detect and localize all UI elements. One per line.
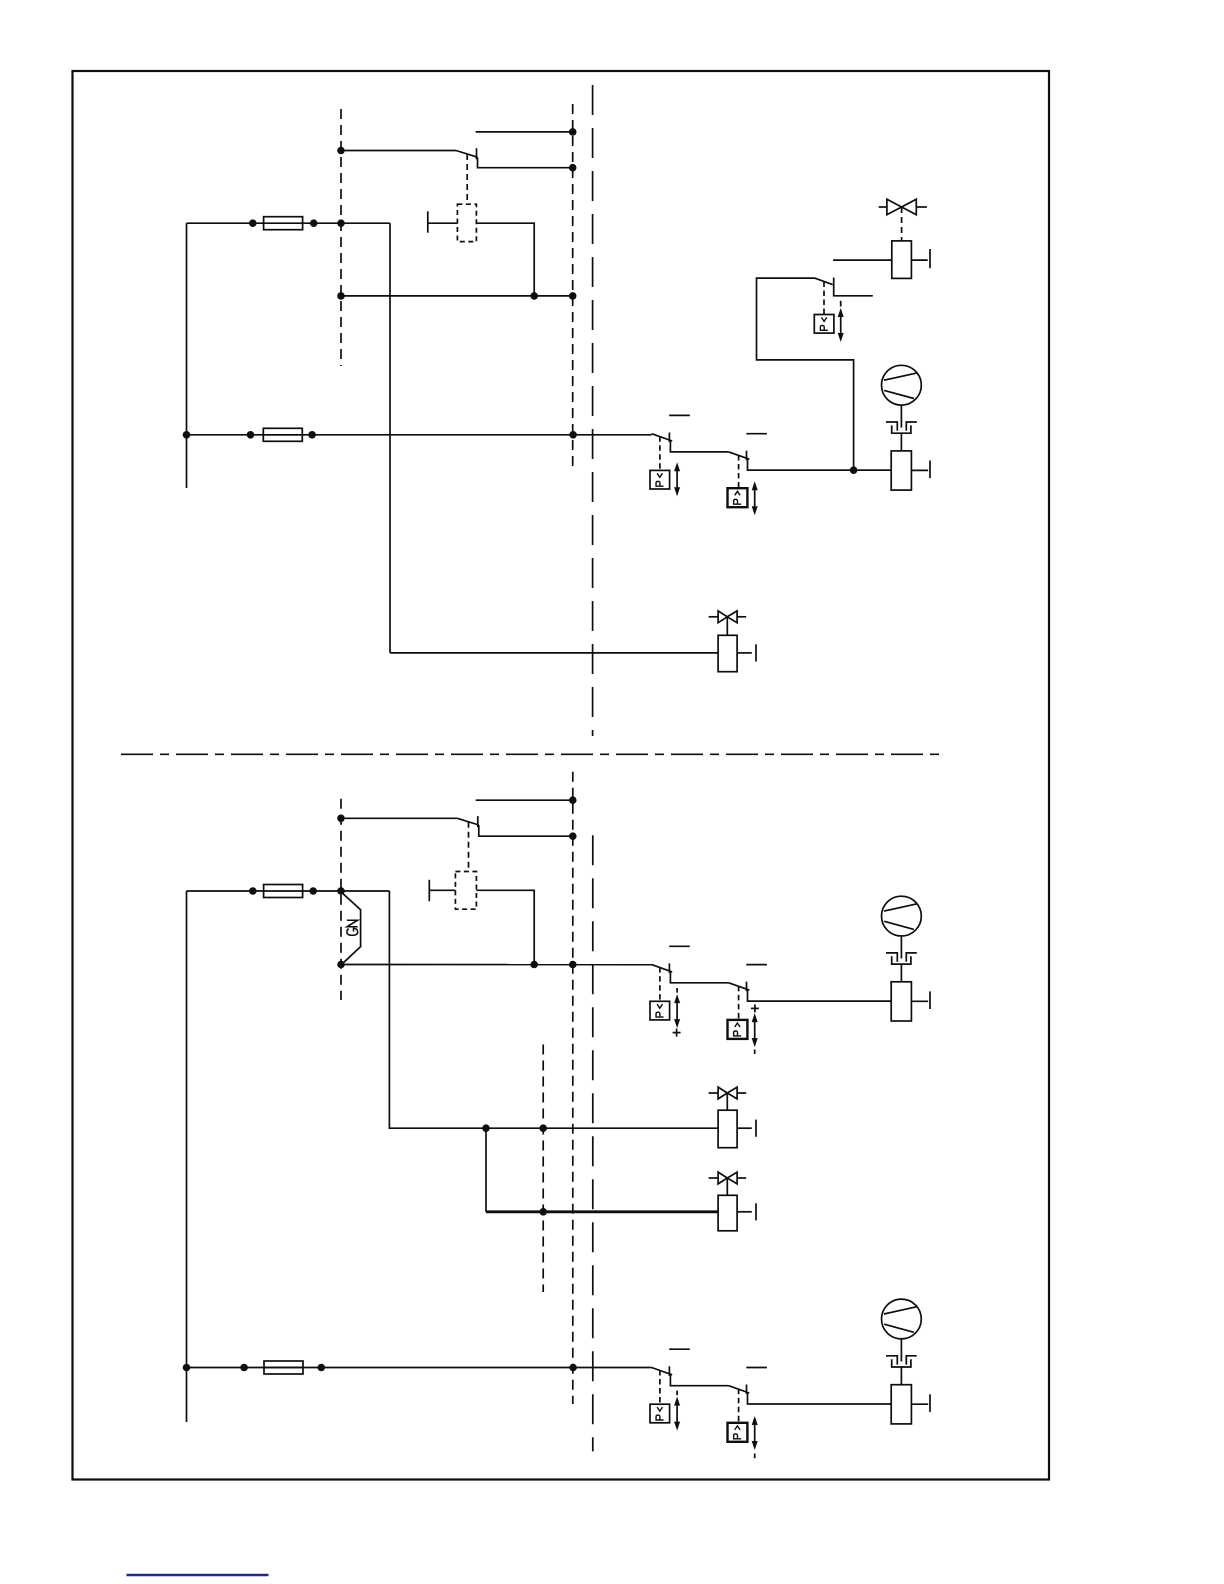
fuse F2 [263, 428, 302, 441]
solenoid valve Y5 [709, 1172, 756, 1231]
wire motor M1 feed [748, 469, 892, 471]
wire left droppipe 2 [186, 891, 188, 1422]
wire branch to valve Y5 [485, 1128, 487, 1212]
fuse F1 [264, 217, 303, 230]
wire node row [341, 295, 573, 297]
wire second phase row [187, 434, 652, 436]
coil K2 (dashed box) [455, 872, 476, 910]
wire GN jog [341, 892, 361, 965]
wire riser to valves Y4/Y5 [389, 891, 718, 1128]
wire left droppipe [186, 223, 188, 488]
wire K1 NC branch [476, 131, 573, 133]
coil K2 left terminal [429, 880, 455, 901]
bus line L1 (dashed) [340, 109, 342, 366]
actuating link K1 (dashed) [466, 154, 468, 204]
actuating link K2 (dashed) [468, 822, 470, 872]
relay contact K1 blade [456, 151, 478, 158]
pressure switch B2 box P> [728, 488, 748, 507]
fuse F3 [264, 885, 303, 898]
bus line L2' (dashed) [572, 772, 574, 1404]
pressure switch B2 link (dashed) [738, 455, 740, 488]
pressure switch B1 blade [652, 415, 729, 452]
wire phase feed 2 [187, 890, 264, 892]
pressure switch B1 box P< [650, 470, 670, 489]
hyperlink underline (blue) [127, 1574, 269, 1576]
pressure switch B4 link (dashed) [659, 967, 661, 1001]
relay contact K2 blade [457, 818, 479, 825]
motor fan M2 [882, 896, 931, 1021]
boundary line (long dash) [592, 85, 594, 736]
pressure switch B4 blade [652, 946, 729, 983]
motor fan M1 [882, 365, 931, 490]
pressure switch B7 box P> [728, 1423, 748, 1442]
relay contact K1 contact tick [476, 148, 478, 159]
boundary line (long dash) [592, 835, 594, 1451]
arrow B1 [674, 462, 680, 496]
bus line L1' (dashed) [340, 799, 342, 1000]
pressure switch B2 blade [729, 434, 891, 471]
pressure switch B5 box P> [728, 1020, 748, 1039]
wire fuse F1 to corner [303, 222, 390, 224]
pressure switch B6 link (dashed) [659, 1370, 661, 1404]
bus line L2 (dashed) [572, 104, 574, 472]
wire valve Y5 row (bold) [486, 1210, 718, 1213]
wire coil K1 to bus [476, 223, 534, 296]
wire node row 2 [341, 964, 652, 966]
wire K1 output [478, 157, 573, 168]
pressure switch B6 blade [652, 1349, 729, 1386]
wire K2 output [479, 825, 573, 836]
junction dots section 1 [183, 128, 858, 474]
pressure switch B6 box P< [650, 1404, 670, 1423]
arrow B7 with dash [752, 1416, 758, 1458]
pressure switch B3 blade [815, 278, 873, 296]
relay contact K2 contact tick [477, 816, 479, 827]
pressure switch B1 link (dashed) [659, 436, 661, 470]
arrow B5 with plus and dash [751, 1004, 759, 1054]
label GN [347, 920, 358, 935]
wire bottom phase row [187, 1367, 652, 1369]
wire fuse F3 to corner [303, 890, 390, 892]
arrow B3 with dash [838, 301, 844, 342]
wire riser to valve Y3 [389, 223, 391, 653]
arrow B6 with dash [674, 1391, 680, 1431]
fuse F4 [264, 1361, 303, 1374]
wire K1 pivot feed [341, 150, 456, 152]
section separator (dash-dot) [121, 753, 945, 755]
coil K1 left terminal [428, 211, 458, 232]
pressure switch B7 link (dashed) [738, 1389, 740, 1423]
solenoid valve Y1 (hand symbol, dashed stem) [833, 199, 930, 278]
pressure switch B3 box P< [814, 315, 834, 334]
wire K2 NC branch [476, 799, 573, 801]
wire bypass elbow [757, 278, 854, 470]
junction dots section 2 [183, 796, 577, 1371]
wire K2 pivot feed [341, 817, 457, 819]
pressure switch B5 link (dashed) [738, 986, 740, 1020]
bus line L3' (dashed) [542, 1045, 544, 1293]
coil K1 (dashed box) [457, 204, 476, 241]
border frame [73, 71, 1050, 1480]
arrow B4 with dash and plus [673, 988, 681, 1037]
arrow B2 [752, 481, 758, 515]
solenoid valve Y3 [390, 611, 756, 672]
pressure switch B4 box P< [650, 1001, 670, 1020]
wire phase feed [187, 222, 264, 224]
pressure switch B5 blade [729, 965, 892, 1002]
wire coil K2 to bus [476, 890, 534, 964]
motor fan M3 [882, 1299, 931, 1424]
pressure switch B3 link (dashed) [823, 282, 825, 315]
solenoid valve Y4 [709, 1087, 756, 1148]
pressure switch B7 blade [729, 1368, 892, 1405]
